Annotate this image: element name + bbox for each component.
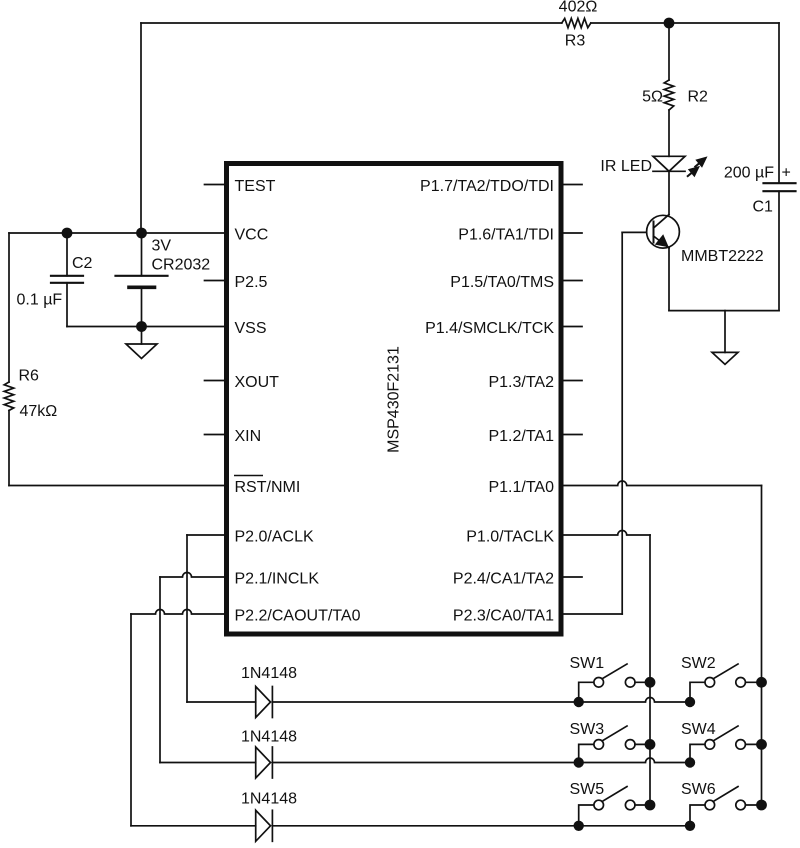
svg-text:P1.5/TA0/TMS: P1.5/TA0/TMS (450, 274, 554, 291)
node SW6 row (685, 821, 695, 831)
resistor R6 (4, 382, 14, 411)
wire row2 with hop at bus A (272, 758, 690, 763)
svg-text:P1.7/TA2/TDO/TDI: P1.7/TA2/TDO/TDI (420, 178, 554, 195)
svg-text:IR LED: IR LED (600, 158, 652, 175)
svg-text:P2.2/CAOUT/TA0: P2.2/CAOUT/TA0 (235, 607, 361, 624)
wire C1 top drop (778, 23, 780, 183)
svg-text:TEST: TEST (235, 178, 276, 195)
svg-text:XIN: XIN (235, 428, 262, 445)
svg-text:+: + (782, 165, 791, 182)
svg-text:0.1 µF: 0.1 µF (17, 292, 63, 309)
wire C2 bottom lead (66, 283, 68, 327)
LED emission arrows (684, 152, 711, 180)
pin stub XOUT (205, 380, 225, 382)
battery B1 3V CR2032 (116, 276, 168, 288)
svg-text:P1.6/TA1/TDI: P1.6/TA1/TDI (458, 226, 554, 243)
svg-text:MSP430F2131: MSP430F2131 (386, 346, 403, 453)
wire battery top lead (141, 233, 143, 276)
node VCC-C2 (62, 228, 73, 239)
wire ground stub right (724, 311, 726, 353)
node SW2 row (685, 697, 695, 707)
wire VCC riser (140, 23, 142, 233)
wire VSS rail (67, 326, 224, 328)
diode D2 1N4148 (160, 747, 272, 778)
wire C2 top lead (66, 233, 68, 276)
node SW2 bus B (756, 677, 767, 688)
svg-text:SW2: SW2 (681, 655, 716, 672)
switch SW5 (579, 787, 650, 826)
ground right (712, 352, 738, 364)
svg-text:P1.3/TA2: P1.3/TA2 (488, 374, 554, 391)
node SW5 row (574, 821, 584, 831)
diode D3 1N4148 (131, 810, 272, 841)
node VSS-battery (136, 321, 147, 332)
svg-text:XOUT: XOUT (235, 374, 280, 391)
svg-text:RST/NMI: RST/NMI (235, 479, 301, 496)
svg-text:R6: R6 (19, 368, 40, 385)
wire P2.2 horizontal with hops (131, 610, 224, 615)
pin stub P1.3 (564, 380, 583, 382)
transistor Q1 MMBT2222 (647, 215, 680, 249)
wire VCC rail (9, 232, 224, 234)
svg-text:P2.1/INCLK: P2.1/INCLK (235, 570, 320, 587)
wire P1.1 horizontal with hop (564, 481, 762, 485)
pin stub P1.4 (564, 326, 583, 328)
wire emitter rail (669, 310, 779, 312)
svg-text:R3: R3 (565, 33, 586, 50)
wire base horizontal (622, 231, 646, 233)
IC U1 MSP430F2131 body (227, 164, 562, 635)
wire bus A drop (649, 535, 651, 805)
svg-text:C2: C2 (72, 255, 93, 272)
svg-text:1N4148: 1N4148 (241, 791, 297, 808)
svg-text:402Ω: 402Ω (559, 0, 598, 16)
switch SW1 (579, 664, 650, 702)
pin stub TEST (205, 184, 225, 186)
svg-text:P2.5: P2.5 (235, 274, 268, 291)
wire base drop to P2.3 (621, 232, 623, 614)
svg-text:P1.1/TA0: P1.1/TA0 (488, 479, 554, 496)
svg-text:SW5: SW5 (570, 781, 605, 798)
wire battery bottom lead (141, 287, 143, 326)
svg-text:P2.0/ACLK: P2.0/ACLK (235, 528, 314, 545)
wire P2.2 drop (130, 614, 132, 826)
svg-text:CR2032: CR2032 (152, 257, 211, 274)
node SW4 row (685, 757, 695, 767)
pin stub P1.7 (564, 184, 583, 186)
wire P1.0 horizontal with hop (564, 531, 651, 536)
wire row1 with hop at bus A (272, 698, 690, 703)
svg-text:5Ω: 5Ω (642, 89, 663, 106)
wire ground stub left (141, 327, 143, 345)
node SW3 row (574, 757, 584, 767)
wire top rail left segment (141, 22, 562, 24)
svg-text:P2.3/CA0/TA1: P2.3/CA0/TA1 (453, 607, 554, 624)
switch SW4 (690, 726, 762, 763)
switch SW3 (579, 726, 650, 763)
node SW5 bus A (645, 800, 656, 811)
node SW4 bus B (756, 739, 767, 750)
wire RST rail (9, 485, 224, 487)
svg-text:VSS: VSS (235, 320, 267, 337)
svg-text:P1.4/SMCLK/TCK: P1.4/SMCLK/TCK (425, 320, 554, 337)
wire R2 top (668, 23, 670, 80)
diode IR LED (653, 156, 685, 171)
node SW1 row (574, 697, 584, 707)
svg-text:P1.2/TA1: P1.2/TA1 (488, 428, 554, 445)
pin stub XIN (205, 434, 225, 436)
RST overline (234, 475, 263, 477)
switch SW2 (690, 664, 762, 702)
svg-text:1N4148: 1N4148 (241, 729, 297, 746)
node SW3 bus A (645, 739, 656, 750)
svg-text:SW1: SW1 (570, 655, 605, 672)
svg-text:3V: 3V (152, 238, 172, 255)
svg-text:SW4: SW4 (681, 721, 716, 738)
pin stub P1.2 (564, 434, 583, 436)
svg-text:R2: R2 (688, 89, 709, 106)
wire R2 to LED (668, 110, 670, 156)
resistor R3 (562, 18, 591, 27)
wire row3 (272, 825, 690, 827)
diode D1 1N4148 (187, 687, 272, 718)
node SW1 bus A (645, 677, 656, 688)
wire top rail right segment (591, 22, 779, 24)
wire emitter drop (668, 248, 670, 311)
pin stub P1.6 (564, 232, 583, 234)
node VCC-battery (136, 228, 147, 239)
wire C1 bottom drop (778, 191, 780, 310)
capacitor C1 (764, 183, 796, 191)
svg-text:VCC: VCC (235, 226, 269, 243)
svg-text:1N4148: 1N4148 (241, 665, 297, 682)
wire P2.1 drop (159, 577, 161, 763)
wire LED to transistor collector (668, 171, 670, 214)
resistor R2 (664, 80, 674, 110)
wire left rail lower (8, 411, 10, 486)
ground left (126, 344, 157, 359)
pin stub P2.5 (205, 280, 225, 282)
pin stub P1.5 (564, 280, 583, 282)
svg-text:47kΩ: 47kΩ (20, 403, 58, 420)
svg-text:SW3: SW3 (570, 721, 605, 738)
svg-text:SW6: SW6 (681, 781, 716, 798)
pin stub P2.4 (564, 576, 583, 578)
wire P2.0 drop (186, 535, 188, 702)
node SW6 bus B (756, 800, 767, 811)
capacitor C2 (51, 276, 83, 283)
svg-text:P1.0/TACLK: P1.0/TACLK (466, 528, 554, 545)
wire P2.0 horizontal (187, 534, 224, 536)
wire P2.3 horizontal (564, 613, 623, 615)
svg-text:C1: C1 (753, 199, 774, 216)
node top junction (664, 18, 675, 29)
wire P2.1 horizontal with hop (160, 573, 224, 578)
svg-text:P2.4/CA1/TA2: P2.4/CA1/TA2 (453, 570, 554, 587)
svg-text:200 µF: 200 µF (724, 165, 774, 182)
svg-text:MMBT2222: MMBT2222 (681, 248, 764, 265)
wire left rail upper (8, 233, 10, 382)
switch SW6 (690, 787, 762, 826)
wire bus B drop (761, 486, 763, 806)
